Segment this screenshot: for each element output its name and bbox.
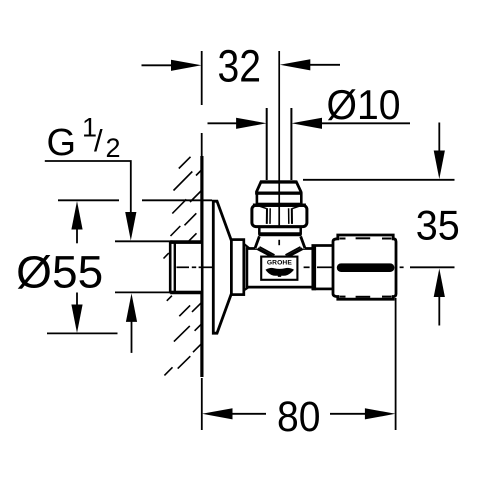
dim 35 bottom reference line — [410, 266, 455, 268]
olive bottom edge — [256, 191, 302, 194]
hex nut facet right — [291, 208, 293, 224]
wall nipple — [170, 242, 202, 293]
bonnet right wedge upper line — [286, 247, 301, 255]
flange ring — [231, 240, 243, 295]
knob inner bottom dash left — [340, 296, 346, 298]
center line horizontal dashes — [177, 266, 404, 268]
hex nut facet left inner — [269, 208, 271, 224]
nipple bottom extension line — [115, 291, 173, 293]
GROHE label plate — [261, 257, 297, 280]
nut chamfer band — [257, 194, 301, 205]
svg-text:/: / — [94, 123, 103, 158]
hex nut facet right inner — [288, 208, 290, 224]
hex facet top tick left — [260, 206, 267, 208]
dim 80 left extension line — [201, 378, 203, 430]
hex facet top tick right — [292, 206, 299, 208]
G 1/2 leader arrow — [125, 212, 136, 241]
dim Ø10 left arrow — [208, 118, 267, 129]
knob inner top dash left — [340, 238, 346, 240]
dim 32 left extension line — [201, 51, 203, 105]
bonnet left wedge upper line — [260, 247, 275, 255]
svg-text:80: 80 — [277, 394, 321, 441]
dim 80 left arrow — [202, 408, 266, 419]
valve body — [247, 249, 314, 287]
nipple bottom up arrow — [126, 293, 137, 353]
bonnet right wedge lower line — [288, 249, 303, 257]
knob slot bar — [337, 263, 395, 272]
riser pipe — [267, 108, 292, 180]
svg-text:32: 32 — [218, 40, 262, 91]
olive top edge — [260, 180, 295, 183]
svg-text:2: 2 — [106, 133, 121, 163]
outlet tube collar — [312, 245, 316, 290]
bonnet collar bottom edge — [259, 233, 302, 236]
G 1/2 leader line — [45, 161, 131, 213]
body chamfer top-left — [244, 244, 251, 249]
svg-text:G: G — [47, 122, 77, 164]
bonnet collar — [259, 227, 300, 234]
dim Ø55 up arrow — [71, 201, 82, 243]
svg-text:Ø10: Ø10 — [327, 81, 401, 128]
svg-text:GROHE: GROHE — [267, 260, 292, 267]
knob inner bottom dash right — [382, 296, 392, 298]
dim 80 right extension line — [395, 298, 397, 430]
hex nut — [252, 205, 307, 226]
svg-text:35: 35 — [416, 202, 460, 249]
olive (compression fitting) — [257, 182, 302, 193]
knob inner bottom dash middle — [356, 296, 371, 298]
dim 35 top reference line — [303, 179, 455, 181]
outlet tube — [313, 246, 335, 289]
bonnet flare — [255, 236, 305, 248]
hex nut top edge — [253, 203, 306, 206]
dim 32 dimension line left arrow — [142, 60, 202, 71]
flange (rosette) — [213, 201, 231, 333]
dim Ø10 right arrow — [292, 118, 411, 129]
dim Ø55 top extension line — [58, 199, 119, 201]
bonnet left wedge lower line — [258, 249, 273, 257]
dim Ø55 bottom extension line — [47, 332, 118, 334]
dim 35 down arrow — [434, 123, 445, 180]
wall hatching — [164, 157, 202, 376]
knob inner top dash right — [382, 238, 392, 240]
riser axis center line through fitting — [278, 108, 280, 226]
nipple top extension line — [115, 240, 173, 242]
body chamfer bottom-left — [244, 286, 251, 290]
dim 35 up arrow — [434, 269, 445, 326]
handle knob — [333, 235, 396, 299]
wall face line — [200, 156, 203, 377]
riser pipe center line upper (axis, 32 right extension) — [278, 51, 280, 108]
svg-text:Ø55: Ø55 — [16, 247, 103, 298]
knob inner top dash middle — [356, 237, 371, 239]
dim 32 dimension line right arrow — [280, 59, 340, 70]
dim 80 right arrow — [330, 408, 395, 419]
G 1/2 label — [47, 113, 121, 165]
dim Ø55 down arrow — [71, 293, 82, 334]
hex nut facet left — [266, 208, 268, 224]
GROHE logo swoosh — [266, 268, 295, 277]
